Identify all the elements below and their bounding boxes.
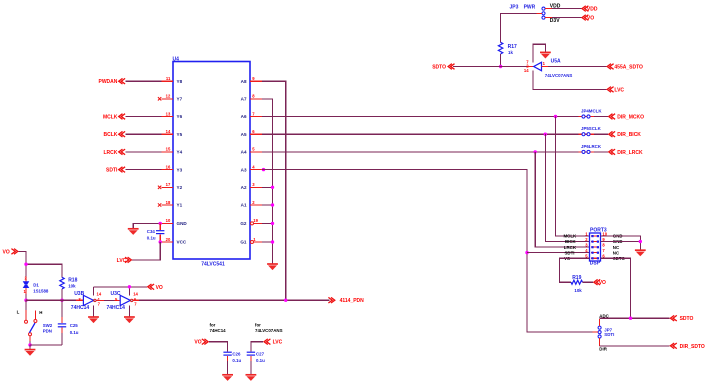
node junction VO/D1/R18 (24, 263, 27, 266)
svg-text:JP3: JP3 (510, 4, 519, 10)
svg-text:A7: A7 (241, 97, 247, 102)
svg-text:15: 15 (166, 147, 171, 152)
port 455A_SDTO (607, 64, 643, 71)
svg-text:DIR_MCKO: DIR_MCKO (617, 115, 644, 121)
svg-text:10k: 10k (68, 284, 76, 289)
svg-text:14: 14 (133, 291, 138, 296)
ground (U5A) (540, 52, 551, 58)
ground (U4 GND pin) (128, 229, 139, 235)
node junction G1 (271, 240, 274, 243)
wire PORT3 VO pin5 to R19 (560, 258, 590, 282)
wire U3C pin14 to VO rail (128, 287, 130, 296)
port DIR_LRCK (609, 149, 643, 156)
svg-text:R18: R18 (68, 277, 77, 283)
wire U3C pin7 to ground (128, 306, 130, 317)
svg-text:16: 16 (166, 164, 171, 169)
wire U3B pin14 to VO rail (93, 287, 95, 296)
wire A8 pin9 down to PDN line (262, 81, 286, 300)
svg-text:U5A: U5A (551, 59, 561, 65)
svg-text:74HC14: 74HC14 (71, 305, 90, 311)
wire U5A pin7 to ground (533, 44, 545, 62)
wire JP3 pin2 to R17 (501, 13, 542, 42)
svg-text:14: 14 (524, 68, 529, 73)
port MCLK (103, 114, 125, 121)
node junction MCLK tap (554, 115, 557, 118)
svg-text:A8: A8 (241, 79, 247, 84)
wire VCC pin20 to LVC (132, 242, 160, 260)
port SDTO (top) (432, 64, 454, 71)
port LVC (U4 supply) (117, 257, 132, 264)
label for 74LVC07ANS (255, 322, 283, 333)
wire A7 pin8 down to ground rail (262, 99, 273, 264)
wire SW2 common to C25 (30, 344, 62, 346)
IC U4 G2 G1 bubbles (251, 222, 254, 225)
svg-text:74LVC07ANS: 74LVC07ANS (255, 328, 283, 333)
port LRCK (104, 149, 126, 156)
node junction SDTI to PORT3 pin4 (525, 251, 528, 254)
wire JP7 ADC to SDTO port (600, 317, 670, 319)
svg-text:A6: A6 (241, 114, 247, 119)
svg-text:DIR_SDTO: DIR_SDTO (680, 344, 705, 350)
node junction A2 (271, 186, 274, 189)
svg-text:19: 19 (253, 218, 258, 223)
svg-text:PWDAN: PWDAN (99, 79, 118, 85)
svg-text:10k: 10k (574, 288, 582, 293)
no-connect pin18 (158, 203, 161, 206)
jumper JP6 LRCK (579, 144, 602, 154)
node junction GND/C34 (159, 222, 162, 225)
svg-text:GND: GND (177, 221, 188, 226)
node junction SDTO/ADC (629, 317, 632, 320)
svg-text:LRCK: LRCK (564, 245, 577, 250)
capacitor C26 (209, 342, 242, 375)
svg-text:H: H (39, 310, 42, 315)
svg-text:MCLK: MCLK (564, 234, 578, 239)
node junction BICK tap (544, 133, 547, 136)
svg-text:U4: U4 (173, 57, 180, 63)
wire D1 to PDN rail (25, 294, 27, 300)
PORT3 left pin labels (564, 234, 578, 261)
svg-text:1S1588: 1S1588 (33, 289, 49, 294)
no-connect pin12 (158, 97, 161, 100)
wire PDN rail to U3B (26, 299, 76, 301)
port DIR_MCKO (609, 114, 644, 121)
wire A1 pin2 (262, 204, 273, 206)
svg-text:SDTI: SDTI (604, 332, 614, 337)
capacitor C27 (247, 342, 265, 375)
svg-text:0.1u: 0.1u (70, 330, 79, 335)
svg-text:Y6: Y6 (177, 114, 183, 119)
svg-text:NC: NC (613, 250, 620, 255)
resistor R17 (498, 42, 517, 55)
label for 74HC14 (210, 322, 227, 333)
svg-text:PWR: PWR (524, 4, 536, 10)
wire G1 pin1 (262, 241, 273, 243)
svg-text:0.1u: 0.1u (256, 358, 265, 363)
wire JP4 to DIR_MCKO (594, 116, 608, 118)
node junction D1/PDN (24, 299, 27, 302)
port LVC (C27) (264, 339, 283, 346)
wire U5A pin14 to LVC (533, 71, 606, 90)
svg-text:PDN: PDN (43, 328, 52, 333)
jumper JP7 SDTI (592, 314, 614, 352)
svg-text:LRCK: LRCK (104, 150, 118, 156)
svg-text:G2: G2 (240, 221, 247, 226)
wire SDTO line to U5A output (453, 66, 527, 68)
wire BCLK to pin14 (126, 133, 162, 135)
port VO (R19) (594, 279, 606, 286)
node junction R17/SDTO (499, 65, 502, 68)
svg-text:C26: C26 (232, 352, 241, 357)
svg-text:VO: VO (587, 16, 594, 22)
PORT3 right pin numbers (602, 231, 607, 258)
wire R17 to SDTO line (500, 54, 502, 67)
svg-text:Y8: Y8 (177, 79, 183, 84)
wire MCLK to pin13 (126, 116, 162, 118)
svg-text:4114_PDN: 4114_PDN (340, 298, 365, 304)
wire SDTI branch to PORT3 pin4 (527, 252, 590, 254)
svg-text:74HC14: 74HC14 (107, 305, 126, 311)
wire U3B out to U3C in (96, 299, 120, 301)
svg-text:Y3: Y3 (177, 167, 183, 172)
svg-text:for: for (210, 322, 216, 327)
wire R18 to PDN rail (61, 289, 63, 300)
svg-text:D1: D1 (33, 283, 39, 288)
port VO (C26) (194, 339, 208, 346)
port VO (top left) (3, 249, 18, 256)
svg-text:1k: 1k (508, 50, 513, 55)
IC U4 right pin stubs (250, 81, 262, 242)
svg-text:18: 18 (166, 200, 171, 205)
jumper JP4 MCLK (579, 108, 603, 118)
wire VO rail (94, 286, 148, 288)
svg-text:JP4MCLK: JP4MCLK (581, 108, 602, 113)
PORT3 right pin labels (613, 234, 626, 261)
wire JP3 pin1 to VDD port (545, 8, 581, 10)
ground (SW2) (29, 345, 31, 349)
svg-text:BCLK: BCLK (104, 132, 118, 138)
svg-text:DIR: DIR (599, 346, 607, 351)
svg-text:455A_SDTO: 455A_SDTO (614, 65, 643, 71)
wire SDTI to pin16 (126, 169, 162, 171)
svg-text:A3: A3 (241, 167, 247, 172)
switch SW2 PDN (17, 300, 53, 345)
jumper JP5 SCLK (579, 126, 602, 136)
PORT3 left pin numbers (585, 231, 588, 258)
diode D1 1S1588 (23, 276, 49, 295)
capacitor C25 (58, 300, 79, 345)
port LVC (U5A supply) (607, 87, 624, 94)
wire PORT3 GND pins to ground (601, 236, 641, 250)
svg-text:A2: A2 (241, 185, 247, 190)
wire U3C out to 4114_PDN (133, 299, 329, 301)
svg-text:20: 20 (166, 237, 171, 242)
svg-text:14: 14 (166, 129, 171, 134)
svg-text:JP5SCLK: JP5SCLK (581, 126, 602, 131)
svg-text:C25: C25 (70, 323, 79, 328)
svg-text:Y2: Y2 (177, 185, 183, 190)
svg-text:10: 10 (166, 218, 171, 223)
wire A5 to JP5 (262, 133, 579, 135)
IC U4 left pin numbers (166, 76, 171, 242)
svg-text:L: L (17, 310, 20, 315)
svg-text:DIR_LRCK: DIR_LRCK (617, 150, 643, 156)
wire GND pin10 (133, 223, 161, 228)
port VDD (582, 6, 598, 13)
port DIR_SDTO (670, 343, 705, 350)
ground (PORT3) (635, 250, 646, 256)
svg-text:for: for (255, 322, 261, 327)
svg-text:SDTI: SDTI (565, 250, 575, 255)
svg-text:LVC: LVC (614, 87, 624, 93)
svg-text:LVC: LVC (117, 258, 127, 264)
IC U4 left pin stubs (162, 81, 174, 242)
svg-text:Y5: Y5 (177, 132, 183, 137)
header JP3 PWR (510, 4, 546, 19)
svg-text:R19: R19 (572, 275, 581, 281)
svg-text:C34: C34 (147, 229, 156, 234)
wire MCLK tap down to PORT3 pin1 (556, 117, 590, 237)
svg-text:VDD: VDD (587, 7, 598, 13)
node junction G2 (271, 222, 274, 225)
svg-text:SDTI: SDTI (106, 168, 118, 174)
port DIR_BICK (609, 131, 642, 138)
svg-text:MCLK: MCLK (103, 115, 118, 121)
svg-text:SDTO: SDTO (432, 65, 446, 71)
svg-text:A5: A5 (241, 132, 247, 137)
ground (U3B) (88, 317, 99, 323)
svg-text:0.1u: 0.1u (147, 235, 156, 240)
svg-text:JP6LRCK: JP6LRCK (581, 144, 602, 149)
port PWDAN (99, 78, 126, 85)
ground (C26) (222, 375, 233, 381)
wire PORT3 SDTO pin6 down (601, 258, 631, 318)
node junction U3C VCC (128, 285, 131, 288)
resistor R19 (571, 275, 583, 293)
port VO (582, 15, 594, 22)
wire JP5 to DIR_BICK (594, 133, 608, 135)
inverter U3C 74HC14 (107, 291, 139, 311)
svg-text:14: 14 (97, 291, 102, 296)
svg-text:74HC14: 74HC14 (210, 328, 227, 333)
wire BICK tap down to PORT3 pin2 (545, 134, 589, 241)
wire LRCK to pin15 (126, 151, 162, 153)
node junction A8/PDN (284, 299, 287, 302)
node junction R18/PDN (60, 299, 63, 302)
IC U4 left pin names (177, 79, 188, 245)
node junction A1 (271, 203, 274, 206)
svg-text:VCC: VCC (177, 240, 187, 245)
port VO (gates supply) (148, 284, 163, 291)
IC U4 right pin names (240, 79, 247, 245)
ground (U4 right rail) (267, 264, 278, 270)
wire JP3 pin3 to VO port (545, 17, 581, 19)
inverter U3B 74HC14 (71, 291, 102, 311)
wire A2 pin3 (262, 186, 273, 188)
svg-text:Y1: Y1 (177, 203, 183, 208)
connector PORT3 (564, 228, 626, 267)
no-connect pin17 (158, 186, 161, 189)
svg-text:SDTO: SDTO (680, 316, 694, 322)
capacitor C34 (147, 223, 165, 242)
svg-text:LVC: LVC (273, 340, 283, 346)
svg-text:VO: VO (3, 250, 10, 256)
node junction GND rows (639, 240, 642, 243)
ground (U3C) (124, 317, 135, 323)
wire JP7 DIR to DIR_SDTO port (600, 345, 670, 347)
port SDTO (bottom) (670, 315, 693, 322)
svg-text:A1: A1 (241, 203, 247, 208)
port 4114_PDN (328, 297, 364, 304)
wire LRCK tap down to PORT3 pin3 (535, 152, 589, 247)
svg-text:C27: C27 (256, 352, 265, 357)
ground (C27) (246, 375, 257, 381)
IC U4 right pin numbers (252, 76, 258, 242)
svg-text:74LVC07ANS: 74LVC07ANS (545, 73, 573, 78)
svg-text:DIR_BICK: DIR_BICK (617, 132, 641, 138)
wire R19 to VO port (583, 281, 594, 283)
wire A3 SDTI net down to JP7 (262, 170, 592, 333)
svg-text:G1: G1 (240, 240, 247, 245)
node junction VCC/C34 (159, 240, 162, 243)
wire A6 to JP4 (262, 116, 579, 118)
node junction LRCK tap (534, 150, 537, 153)
svg-text:D3V: D3V (550, 18, 560, 24)
svg-text:NC: NC (613, 245, 620, 250)
svg-text:13: 13 (166, 111, 171, 116)
resistor R18 (60, 277, 78, 289)
node junction A3 stub (262, 168, 265, 171)
IC U4 74LVC541 body (173, 57, 251, 268)
wire PWDAN to pin11 (126, 80, 162, 82)
svg-text:12: 12 (166, 94, 171, 99)
wire U5A input pin1 (542, 66, 607, 68)
port SDTI (106, 167, 125, 174)
svg-text:VO: VO (599, 280, 606, 286)
port BCLK (104, 131, 126, 138)
wire G2 pin19 (262, 222, 273, 224)
wire JP6 to DIR_LRCK (594, 151, 608, 153)
svg-text:11: 11 (166, 76, 171, 81)
node junction SW2/C25/gnd (28, 343, 31, 346)
op-amp U5A buffer 74LVC07ANS (524, 59, 572, 79)
svg-text:BICK: BICK (565, 239, 577, 244)
svg-text:Y7: Y7 (177, 97, 183, 102)
svg-text:A4: A4 (241, 150, 247, 155)
svg-text:17: 17 (166, 182, 171, 187)
svg-text:VO: VO (156, 285, 163, 291)
wire VO to D1/R18 (18, 251, 62, 277)
svg-text:0.1u: 0.1u (232, 358, 241, 363)
svg-text:Y4: Y4 (177, 150, 183, 155)
svg-text:DSP: DSP (590, 261, 601, 267)
wire U3B pin7 to ground (93, 306, 95, 317)
svg-text:VO: VO (194, 340, 201, 346)
wire A4 to JP6 (262, 151, 579, 153)
svg-text:74LVC541: 74LVC541 (201, 261, 225, 267)
svg-text:VDD: VDD (550, 4, 561, 10)
